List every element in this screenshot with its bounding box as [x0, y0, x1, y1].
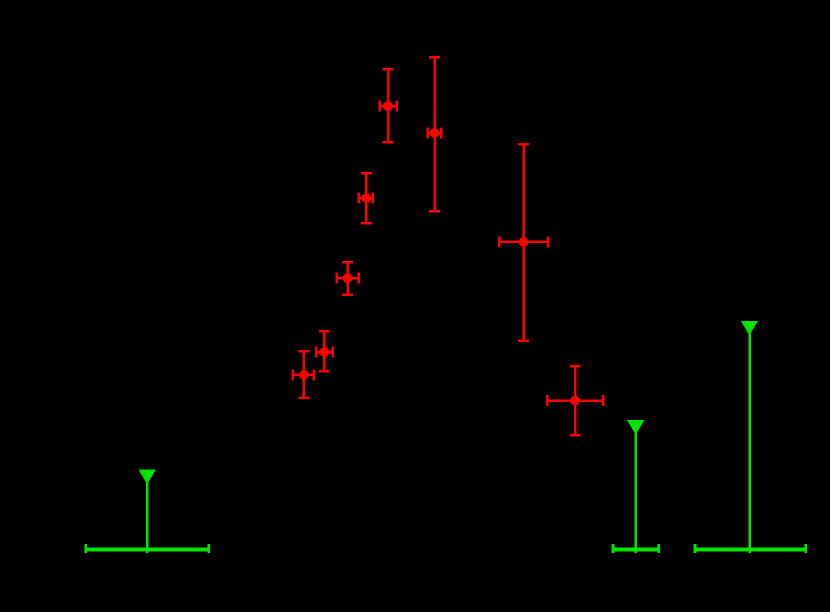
red data point P4 with error bars [359, 173, 373, 223]
red data point P8 with error bars [547, 366, 603, 435]
red data point P2 with error bars [316, 331, 333, 371]
red data point P5 with error bars [380, 69, 397, 142]
red data point P3 with error bars [337, 262, 359, 295]
red data point P7 with error bars [499, 144, 548, 341]
red data point P1 with error bars [293, 351, 314, 398]
green upper limit C [695, 321, 806, 553]
green upper limit B [613, 420, 659, 553]
green upper limit A [86, 470, 209, 554]
red data point P6 with error bars [428, 57, 442, 211]
